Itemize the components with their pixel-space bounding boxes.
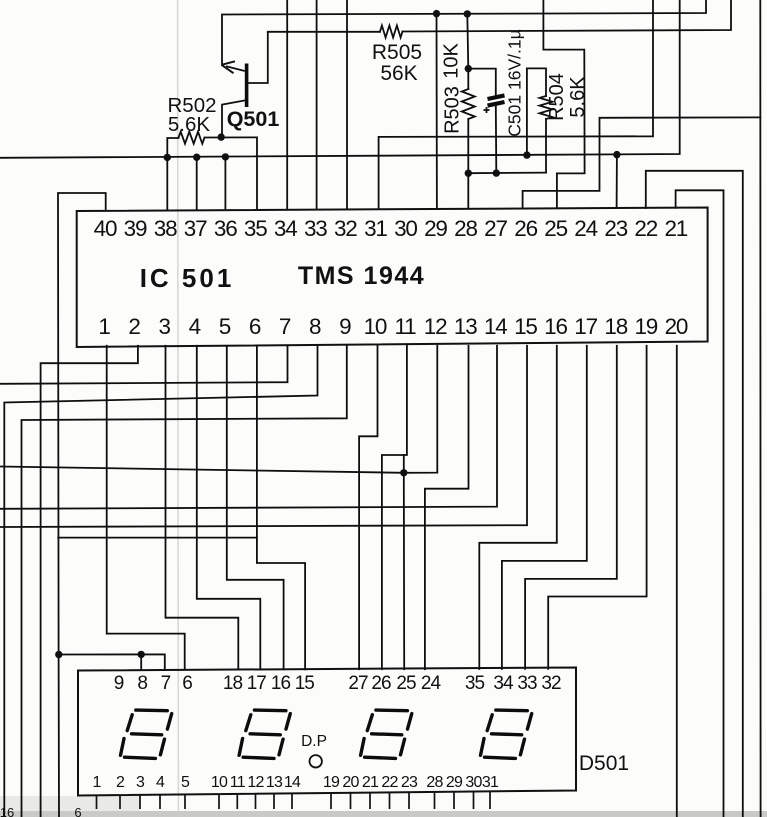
- junction L2 pin37: [193, 154, 200, 161]
- svg-text:29: 29: [446, 774, 463, 791]
- svg-text:3: 3: [136, 774, 145, 791]
- svg-text:34: 34: [274, 216, 297, 241]
- wire L2 to pin 23: [616, 155, 618, 208]
- svg-text:22: 22: [634, 216, 657, 241]
- display digit 4: [481, 710, 532, 758]
- svg-text:5.6K: 5.6K: [567, 76, 589, 118]
- wire pin3 to display pin18: [166, 346, 239, 670]
- svg-text:16: 16: [0, 805, 14, 817]
- wire right edge vertical: [759, 0, 761, 817]
- svg-text:37: 37: [184, 216, 207, 241]
- wire bus58 to pin6 line: [58, 537, 257, 539]
- svg-text:4: 4: [156, 774, 165, 791]
- junction T1 / pin29 wire: [433, 10, 440, 17]
- wire pin1 to display pin6: [107, 346, 185, 670]
- svg-text:12: 12: [424, 314, 447, 339]
- svg-text:6: 6: [249, 314, 261, 339]
- svg-text:15: 15: [295, 673, 315, 694]
- wire pin18 to display pin33: [525, 346, 617, 669]
- svg-text:R505: R505: [372, 41, 422, 64]
- wire rail pins11-12 to left edge: [0, 346, 437, 473]
- svg-text:38: 38: [154, 216, 177, 241]
- wire pin11 to display pin26: [382, 346, 407, 669]
- wire pin26 rail to right vertical: [523, 117, 761, 208]
- svg-text:IC 501: IC 501: [140, 263, 235, 293]
- svg-text:10K: 10K: [441, 43, 463, 79]
- svg-text:8: 8: [137, 673, 147, 694]
- IC U1 IC501 TMS1944 box: [77, 208, 708, 348]
- svg-text:28: 28: [454, 216, 477, 241]
- wire top to pin 33: [316, 0, 318, 209]
- junction R503 C501 top: [465, 65, 472, 72]
- wire pin8 to left bus: [4, 346, 317, 817]
- wire collector rail T2 left: [268, 31, 380, 33]
- svg-text:5: 5: [181, 774, 190, 791]
- wire pin10 to display pin27: [359, 346, 377, 669]
- wire R503 bottom lead: [467, 119, 469, 208]
- svg-text:5: 5: [219, 314, 231, 339]
- svg-text:29: 29: [424, 216, 447, 241]
- wire top to pin 32: [346, 0, 348, 209]
- junction L2 R504: [523, 151, 530, 158]
- junction L2 pin38: [164, 154, 171, 161]
- svg-text:D501: D501: [579, 752, 629, 775]
- wire L2 to pin 37: [196, 157, 198, 210]
- svg-text:28: 28: [426, 774, 443, 791]
- svg-text:16: 16: [544, 314, 567, 339]
- svg-text:9: 9: [339, 314, 351, 339]
- svg-text:2: 2: [116, 774, 125, 791]
- wire to display pins 8 and 7: [59, 654, 165, 669]
- svg-text:15: 15: [514, 314, 537, 339]
- svg-text:6: 6: [182, 673, 192, 694]
- junction base of Q501: [218, 133, 225, 140]
- wire pin2 to left bus bottom: [41, 346, 138, 817]
- svg-text:4: 4: [189, 314, 201, 339]
- svg-text:18: 18: [604, 314, 627, 339]
- junction R503 bottom rail: [465, 170, 472, 177]
- svg-text:9: 9: [114, 673, 124, 694]
- svg-text:D.P: D.P: [301, 733, 327, 750]
- svg-text:18: 18: [223, 673, 243, 694]
- svg-text:33: 33: [304, 216, 327, 241]
- display bottom pin stubs: [97, 791, 491, 809]
- svg-text:26: 26: [371, 673, 391, 694]
- svg-text:17: 17: [574, 314, 597, 339]
- resistor R505: [380, 26, 403, 38]
- wire collector rail T2 right: [403, 0, 732, 32]
- wire C501 bottom lead: [495, 105, 498, 173]
- svg-text:11: 11: [230, 774, 246, 791]
- svg-text:34: 34: [493, 673, 514, 694]
- display D501 box: [78, 668, 576, 796]
- svg-text:1: 1: [98, 314, 110, 339]
- svg-text:27: 27: [484, 216, 507, 241]
- svg-text:10: 10: [211, 774, 228, 791]
- wire C501 top lead: [468, 69, 496, 95]
- wire dot to display pin25: [403, 473, 405, 669]
- IC bottom pin numbers 1-20: [98, 314, 688, 339]
- svg-text:30: 30: [394, 216, 417, 241]
- svg-text:40: 40: [94, 216, 117, 241]
- svg-text:6: 6: [74, 805, 81, 817]
- svg-text:5.6K: 5.6K: [168, 113, 210, 136]
- junction L2 pin36: [222, 153, 229, 160]
- wire R504 bottom lead: [545, 119, 547, 173]
- svg-text:22: 22: [381, 774, 398, 791]
- wire pin31 rail to top right: [379, 0, 653, 209]
- wire pin6 to display pin15: [257, 346, 305, 670]
- svg-text:31: 31: [482, 774, 499, 791]
- svg-text:1: 1: [92, 774, 101, 791]
- capacitor C501: [484, 95, 505, 113]
- svg-text:12: 12: [247, 774, 264, 791]
- wire long rail L2: [0, 0, 680, 158]
- wire L2 to pin 38: [166, 157, 168, 209]
- junction bus58 display wire: [55, 651, 62, 658]
- wire L2 to pin 36: [224, 157, 226, 210]
- svg-text:20: 20: [342, 774, 359, 791]
- svg-text:56K: 56K: [380, 62, 417, 85]
- svg-text:14: 14: [484, 314, 507, 339]
- junction display pin8 wire: [138, 651, 145, 658]
- wire pin40 step to left bus: [58, 193, 106, 817]
- wire pin14 to left edge: [0, 346, 497, 509]
- wire pin20 to bottom edge: [676, 346, 678, 817]
- svg-text:19: 19: [323, 774, 340, 791]
- svg-text:35: 35: [244, 216, 267, 241]
- wire T1 to pin 29: [436, 14, 438, 209]
- svg-text:31: 31: [364, 216, 387, 241]
- svg-text:7: 7: [161, 673, 171, 694]
- svg-text:32: 32: [334, 216, 357, 241]
- svg-text:R504: R504: [546, 73, 568, 121]
- svg-text:11: 11: [395, 314, 417, 339]
- wire pin16 to display pin35: [479, 346, 557, 669]
- wire R504 top lead: [527, 68, 546, 155]
- display top pin numbers: [114, 673, 561, 694]
- wire pin5 to display pin16: [227, 346, 284, 670]
- resistor R502: [179, 132, 205, 144]
- svg-text:33: 33: [517, 673, 537, 694]
- svg-text:26: 26: [514, 216, 537, 241]
- svg-text:25: 25: [396, 673, 416, 694]
- wire emitter of Q501 to top rail T1: [222, 0, 706, 65]
- wire pin17 to display pin34: [502, 346, 587, 669]
- svg-text:13: 13: [454, 314, 477, 339]
- decimal point circle: [310, 755, 322, 767]
- svg-text:17: 17: [247, 673, 267, 694]
- wire top to pin 25: [543, 0, 584, 208]
- svg-text:14: 14: [284, 774, 301, 791]
- svg-text:36: 36: [214, 216, 237, 241]
- wire R502 left lead: [167, 138, 178, 157]
- svg-text:20: 20: [665, 314, 688, 339]
- junction pins11-12 rail display25: [400, 469, 407, 476]
- svg-text:TMS 1944: TMS 1944: [298, 262, 425, 290]
- wire top to pin 34: [286, 0, 288, 209]
- display digit 3: [361, 710, 412, 758]
- svg-text:Q501: Q501: [227, 107, 280, 131]
- svg-text:35: 35: [465, 673, 485, 694]
- wire pin4 to display pin17: [197, 346, 260, 670]
- wire display pin8 stub: [140, 654, 142, 669]
- wire pin22 to bottom right: [646, 171, 743, 817]
- display digit 1: [121, 710, 172, 758]
- junction T1 / R503 top: [464, 10, 471, 17]
- svg-text:23: 23: [401, 774, 418, 791]
- svg-text:3: 3: [159, 314, 171, 339]
- svg-text:13: 13: [266, 774, 283, 791]
- wire pin7 to left edge: [0, 346, 288, 384]
- svg-text:24: 24: [421, 673, 442, 694]
- transistor Q501: [222, 32, 268, 137]
- svg-text:R503: R503: [442, 86, 464, 134]
- display digit 2: [239, 710, 290, 758]
- wire R503 top lead: [467, 14, 468, 89]
- svg-text:27: 27: [348, 673, 368, 694]
- svg-text:24: 24: [574, 216, 597, 241]
- svg-text:21: 21: [664, 216, 687, 241]
- svg-text:30: 30: [465, 774, 482, 791]
- svg-text:7: 7: [279, 314, 291, 339]
- svg-text:C501 16V/.1µ: C501 16V/.1µ: [505, 29, 525, 136]
- svg-text:23: 23: [604, 216, 627, 241]
- resistor R504: [540, 96, 553, 119]
- svg-text:10: 10: [364, 314, 387, 339]
- svg-text:8: 8: [309, 314, 321, 339]
- wire pin15 to left edge: [0, 346, 527, 527]
- wire pin21 to bottom right: [676, 190, 724, 817]
- svg-text:2: 2: [128, 314, 140, 339]
- wire pin11 branch to dot: [403, 455, 405, 473]
- resistor R503: [462, 89, 475, 119]
- wire pin9 to left bus: [22, 346, 347, 817]
- wire bottom tie rail: [468, 172, 546, 175]
- IC top pin numbers 40-21: [94, 216, 688, 241]
- display bottom pin numbers: [92, 774, 499, 791]
- svg-text:32: 32: [541, 673, 561, 694]
- svg-text:25: 25: [544, 216, 567, 241]
- svg-text:39: 39: [124, 216, 147, 241]
- wire pin19 to display pin32: [548, 346, 646, 669]
- svg-text:19: 19: [634, 314, 657, 339]
- junction L2 pin23: [613, 151, 620, 158]
- wire base line to pin35: [205, 137, 258, 209]
- svg-text:16: 16: [271, 673, 291, 694]
- svg-text:21: 21: [362, 774, 379, 791]
- wire pin13 to display pin24: [425, 346, 469, 669]
- junction C501 bottom rail: [493, 169, 500, 176]
